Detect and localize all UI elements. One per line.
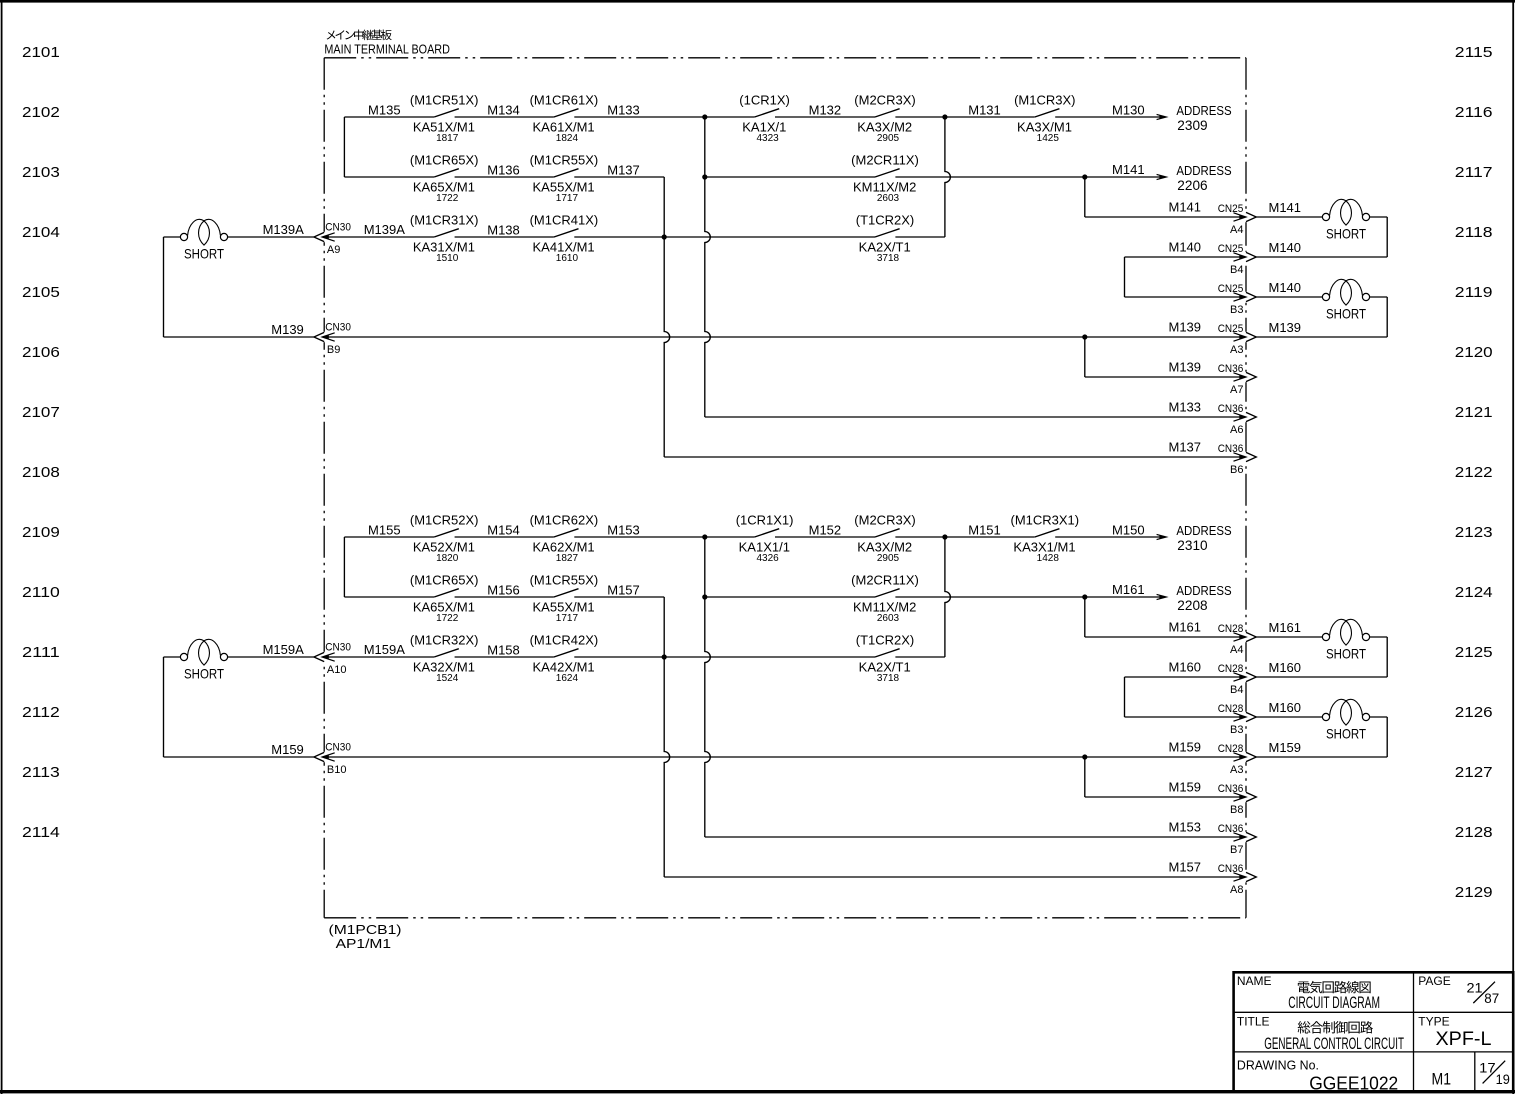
title block [1234,972,1514,1093]
svg-text:M160: M160 [1269,700,1302,715]
svg-text:M135: M135 [368,103,401,118]
svg-text:2114: 2114 [22,824,60,841]
svg-text:M151: M151 [968,523,1001,538]
svg-text:M131: M131 [968,103,1001,118]
wire rung M157 segments (lower row2) [344,596,434,598]
svg-text:(M1CR62X): (M1CR62X) [530,513,599,528]
contact KA51X/M1 (M1CR51X) [410,93,479,144]
connector CN36-A8 [1169,860,1257,896]
label メイン中継基板 [327,30,392,41]
svg-text:M159: M159 [271,742,304,757]
svg-text:1510: 1510 [436,253,459,264]
svg-text:(M1CR61X): (M1CR61X) [530,93,599,108]
svg-text:M159A: M159A [263,642,305,657]
svg-text:19: 19 [1496,1071,1510,1087]
svg-text:2101: 2101 [22,44,60,61]
svg-text:2310: 2310 [1177,537,1207,553]
svg-text:M141: M141 [1169,200,1202,215]
connector CN30-A10 [263,642,406,676]
wire net M139 row [324,336,1246,338]
svg-text:(M1CR41X): (M1CR41X) [530,213,599,228]
contact KA32X/M1 (M1CR32X) [410,633,479,684]
svg-text:M140: M140 [1269,280,1302,295]
short-jumper SHORT (right, M140) [1322,279,1369,321]
svg-text:2119: 2119 [1455,284,1493,301]
svg-text:M132: M132 [809,103,842,118]
svg-text:(M1CR51X): (M1CR51X) [410,93,479,108]
svg-text:M158: M158 [487,643,520,658]
svg-text:(T1CR2X): (T1CR2X) [856,213,915,228]
svg-text:1425: 1425 [1037,133,1060,144]
junction M139 branch to A7 [1082,334,1087,339]
board M1PCB1 AP1/M1 dashed outline (MAIN TERMINAL BOARD) [324,57,1246,59]
junction M157... bus/KM rung [702,594,707,599]
wire KA2X/T1 output up to rung1 [945,537,951,657]
svg-text:(M1CR55X): (M1CR55X) [530,573,599,588]
svg-text:A6: A6 [1230,424,1243,436]
svg-text:(M1CR65X): (M1CR65X) [410,573,479,588]
contact KA65X/M1 (M1CR65X) [410,573,479,624]
junction M141 branch [1082,174,1087,179]
svg-text:2109: 2109 [22,524,60,541]
contact KA62X/M1 (M1CR62X) [530,513,599,564]
svg-text:M138: M138 [487,223,520,238]
svg-text:CN36: CN36 [1218,783,1244,795]
svg-text:M161: M161 [1269,620,1302,635]
svg-text:M155: M155 [368,523,401,538]
wire M160 connector to SHORT and loop to A3 [1256,716,1322,718]
contact KM11X/M2 (M2CR11X) [851,573,919,624]
svg-text:2104: 2104 [22,224,60,241]
svg-text:TITLE: TITLE [1237,1014,1270,1028]
junction M137... bus/KM rung [702,174,707,179]
svg-text:2116: 2116 [1455,104,1493,121]
svg-text:2309: 2309 [1177,117,1207,133]
svg-text:(M1CR52X): (M1CR52X) [410,513,479,528]
svg-text:(M1CR65X): (M1CR65X) [410,153,479,168]
svg-text:(M1CR3X1): (M1CR3X1) [1010,513,1079,528]
junction M153/bus [702,534,707,539]
svg-text:CIRCUIT DIAGRAM: CIRCUIT DIAGRAM [1288,993,1380,1012]
junction M137 branch on rung3 [662,234,667,239]
wire net M133 down from rung1 to pin A6 [705,117,711,417]
wire M159 loop from SHORT to connector CN30-B10 [164,656,181,658]
svg-text:(M1PCB1): (M1PCB1) [329,922,402,937]
svg-text:M130: M130 [1112,103,1145,118]
svg-text:SHORT: SHORT [1326,726,1366,742]
contact KA41X/M1 (M1CR41X) [530,213,599,264]
svg-text:2129: 2129 [1455,884,1493,901]
short-jumper SHORT (right, M161) [1322,619,1369,661]
svg-text:M136: M136 [487,163,520,178]
contact KA55X/M1 (M1CR55X) [530,153,599,204]
connector CN25-A4 [1169,200,1302,236]
svg-text:CN36: CN36 [1218,863,1244,875]
svg-text:CN25: CN25 [1218,203,1244,215]
contact KA1X/1 (1CR1X) [739,93,790,144]
wire M139A from SHORT to connector CN30-A9 [228,236,314,238]
svg-text:1722: 1722 [436,613,459,624]
svg-text:2105: 2105 [22,284,60,301]
contact KA3X/M2 (M2CR3X) [854,93,915,144]
svg-text:CN25: CN25 [1218,283,1244,295]
junction M131/bus [942,114,947,119]
svg-text:CN30: CN30 [325,322,351,334]
contact KA55X/M1 (M1CR55X) [530,573,599,624]
svg-text:SHORT: SHORT [184,246,224,262]
wire rung M155 segments (lower row1) [344,536,434,538]
wire net M137 down from rung2 to pin B6 [664,177,670,457]
svg-text:2905: 2905 [877,553,900,564]
svg-text:2102: 2102 [22,104,60,121]
svg-text:M161: M161 [1169,620,1202,635]
svg-text:M150: M150 [1112,523,1145,538]
svg-text:1610: 1610 [556,253,579,264]
connector CN36-B7 [1169,820,1257,856]
arrow to address 2206 [1157,174,1167,179]
svg-text:4323: 4323 [756,133,779,144]
svg-text:2125: 2125 [1455,644,1493,661]
svg-text:M153: M153 [607,523,640,538]
contact KM11X/M2 (M2CR11X) [851,153,919,204]
svg-text:(M2CR11X): (M2CR11X) [851,153,919,168]
svg-text:NAME: NAME [1237,974,1272,988]
svg-text:A8: A8 [1230,884,1243,896]
wire net M153 down from rung1 to pin B7 [705,537,711,837]
svg-text:2122: 2122 [1455,464,1493,481]
wire rung KM11X/M2 (lower) [705,596,875,598]
svg-text:SHORT: SHORT [1326,226,1366,242]
svg-text:1717: 1717 [556,613,579,624]
svg-text:2126: 2126 [1455,704,1493,721]
junction M151/bus [942,534,947,539]
contact KA52X/M1 (M1CR52X) [410,513,479,564]
page border frame right [1512,0,1514,1094]
svg-text:CN28: CN28 [1218,663,1244,675]
svg-text:1624: 1624 [556,673,579,684]
svg-text:M156: M156 [487,583,520,598]
contact KA31X/M1 (M1CR31X) [410,213,479,264]
svg-text:2110: 2110 [22,584,60,601]
svg-text:M139: M139 [1169,320,1202,335]
svg-text:2113: 2113 [22,764,60,781]
svg-text:2206: 2206 [1177,177,1207,193]
svg-text:2124: 2124 [1455,584,1493,601]
connector CN28-B4 [1169,660,1302,696]
svg-text:(M2CR3X): (M2CR3X) [854,513,915,528]
svg-text:(M1CR31X): (M1CR31X) [410,213,479,228]
svg-text:AP1/M1: AP1/M1 [336,936,392,951]
short-jumper SHORT (right, M141) [1322,199,1369,241]
svg-text:PAGE: PAGE [1418,974,1450,988]
svg-text:M159: M159 [1169,780,1202,795]
svg-text:M1: M1 [1432,1070,1452,1089]
svg-text:2121: 2121 [1455,404,1493,421]
contact KA3X/M2 (M2CR3X) [854,513,915,564]
svg-text:M133: M133 [1169,400,1202,415]
wire net M157 down from rung2 to pin A8 [664,597,670,877]
svg-text:DRAWING No.: DRAWING No. [1237,1057,1319,1072]
svg-text:CN30: CN30 [325,742,351,754]
svg-text:2120: 2120 [1455,344,1493,361]
svg-text:1827: 1827 [556,553,579,564]
svg-text:M160: M160 [1169,660,1202,675]
svg-text:SHORT: SHORT [1326,646,1366,662]
svg-text:M141: M141 [1112,162,1145,177]
svg-text:M157: M157 [607,583,640,598]
contact KA3X/M1 (M1CR3X) [1014,93,1075,144]
svg-text:ADDRESS: ADDRESS [1176,583,1232,598]
svg-text:A7: A7 [1230,384,1243,396]
svg-text:M161: M161 [1112,582,1145,597]
svg-text:(M1CR3X): (M1CR3X) [1014,93,1075,108]
svg-text:CN36: CN36 [1218,363,1244,375]
svg-text:3718: 3718 [877,253,900,264]
svg-text:1820: 1820 [436,553,459,564]
svg-text:ADDRESS: ADDRESS [1176,523,1232,538]
svg-text:2128: 2128 [1455,824,1493,841]
connector CN36-B8 [1169,780,1257,816]
svg-text:B6: B6 [1230,464,1243,476]
wire net M139 branch down to pin A7 [1084,337,1086,377]
contact KA3X1/M1 (M1CR3X1) [1010,513,1079,564]
svg-text:B3: B3 [1230,304,1243,316]
connector CN30-B9 [271,322,351,356]
svg-text:XPF-L: XPF-L [1436,1029,1492,1050]
contact KA42X/M1 (M1CR42X) [530,633,599,684]
svg-text:2107: 2107 [22,404,60,421]
svg-text:2127: 2127 [1455,764,1493,781]
svg-text:M139A: M139A [364,222,406,237]
short-jumper SHORT (lower left, M159A-M159) [180,639,227,681]
svg-text:MAIN TERMINAL BOARD: MAIN TERMINAL BOARD [324,42,450,57]
svg-text:2112: 2112 [22,704,60,721]
svg-text:2905: 2905 [877,133,900,144]
svg-text:M140: M140 [1169,240,1202,255]
svg-text:M141: M141 [1269,200,1302,215]
label 電気回路線図 [1298,981,1371,994]
svg-text:87: 87 [1484,990,1499,1006]
svg-text:2208: 2208 [1177,597,1207,613]
connector CN36-A6 [1169,400,1257,436]
svg-text:M159: M159 [1269,740,1302,755]
svg-text:M139: M139 [1269,320,1302,335]
svg-text:A9: A9 [327,244,340,256]
wire M141 connector to SHORT and loop to B4 [1256,216,1322,218]
svg-text:1717: 1717 [556,193,579,204]
svg-text:M139A: M139A [263,222,305,237]
short-jumper SHORT (right, M160) [1322,699,1369,741]
svg-text:M157: M157 [1169,860,1202,875]
wire net M160 loop pin B4 to pin B3 [1125,676,1247,678]
svg-text:(M1CR32X): (M1CR32X) [410,633,479,648]
svg-text:1722: 1722 [436,193,459,204]
svg-text:B7: B7 [1230,844,1243,856]
short-jumper SHORT (upper left, M139A-M139) [180,219,227,261]
svg-text:M133: M133 [607,103,640,118]
connector CN30-A9 [263,222,406,256]
wire left branch bus (upper) [343,117,345,177]
svg-text:(1CR1X): (1CR1X) [739,93,790,108]
arrow to address 2208 [1157,594,1167,599]
svg-text:A4: A4 [1230,224,1243,236]
svg-text:B8: B8 [1230,804,1243,816]
svg-text:ADDRESS: ADDRESS [1176,103,1232,118]
svg-text:CN25: CN25 [1218,243,1244,255]
svg-text:2108: 2108 [22,464,60,481]
svg-text:(M1CR42X): (M1CR42X) [530,633,599,648]
svg-text:SHORT: SHORT [184,666,224,682]
svg-text:CN28: CN28 [1218,703,1244,715]
svg-text:M154: M154 [487,523,520,538]
contact KA2X/T1 (T1CR2X) [856,213,915,264]
svg-text:(1CR1X1): (1CR1X1) [736,513,794,528]
svg-text:B4: B4 [1230,264,1243,276]
svg-text:1524: 1524 [436,673,459,684]
wire net M161 branch down to pin A4 [1084,597,1086,637]
svg-text:2103: 2103 [22,164,60,181]
svg-text:M134: M134 [487,103,520,118]
connector CN25-B4 [1169,240,1302,276]
wire rung KM11X/M2 (upper) [705,176,875,178]
svg-text:CN28: CN28 [1218,623,1244,635]
contact KA61X/M1 (M1CR61X) [530,93,599,144]
contact KA2X/T1 (T1CR2X) [856,633,915,684]
svg-text:M139: M139 [1169,360,1202,375]
connector CN30-B10 [271,742,351,776]
svg-text:B3: B3 [1230,724,1243,736]
svg-text:(M2CR3X): (M2CR3X) [854,93,915,108]
svg-text:CN36: CN36 [1218,443,1244,455]
connector CN25-A3 [1169,320,1302,356]
svg-text:1428: 1428 [1037,553,1060,564]
svg-text:M159A: M159A [364,642,406,657]
svg-text:(T1CR2X): (T1CR2X) [856,633,915,648]
connector CN36-B6 [1169,440,1257,476]
svg-text:1824: 1824 [556,133,579,144]
junction M161 branch [1082,594,1087,599]
svg-text:GGEE1022: GGEE1022 [1309,1073,1398,1093]
svg-text:(M2CR11X): (M2CR11X) [851,573,919,588]
wire rung M137 segments (upper row2) [344,176,434,178]
svg-text:21: 21 [1467,980,1483,996]
wire M139 loop from SHORT to connector CN30-B9 [164,236,181,238]
svg-text:A3: A3 [1230,764,1243,776]
svg-text:M160: M160 [1269,660,1302,675]
wire KA2X/T1 output up to rung1 [945,117,951,237]
page border frame bottom [0,1090,1515,1093]
svg-text:A3: A3 [1230,344,1243,356]
svg-text:CN36: CN36 [1218,403,1244,415]
svg-text:CN36: CN36 [1218,823,1244,835]
svg-text:M137: M137 [607,163,640,178]
arrow to address 2310 [1157,534,1167,539]
wire M161 connector to SHORT and loop to B4 [1256,636,1322,638]
svg-text:CN30: CN30 [325,222,351,234]
svg-text:TYPE: TYPE [1418,1014,1449,1028]
connector CN28-B3 [1218,700,1301,736]
svg-text:2111: 2111 [22,644,60,661]
svg-text:M152: M152 [809,523,842,538]
svg-text:(M1CR55X): (M1CR55X) [530,153,599,168]
wire net M159 row [324,756,1246,758]
svg-text:M139: M139 [271,322,304,337]
svg-text:A4: A4 [1230,644,1243,656]
svg-text:2123: 2123 [1455,524,1493,541]
junction M159 branch to B8 [1082,754,1087,759]
arrow to address 2309 [1157,114,1167,119]
svg-text:1817: 1817 [436,133,459,144]
wire M140 connector to SHORT and loop to A3 [1256,296,1322,298]
svg-text:CN30: CN30 [325,642,351,654]
svg-text:3718: 3718 [877,673,900,684]
svg-text:B4: B4 [1230,684,1243,696]
svg-text:2115: 2115 [1455,44,1493,61]
svg-text:CN25: CN25 [1218,323,1244,335]
connector CN28-A4 [1169,620,1302,656]
svg-text:CN28: CN28 [1218,743,1244,755]
wire net M159 branch down to pin B8 [1084,757,1086,797]
page border frame left [1,0,3,1094]
connector CN25-B3 [1218,280,1301,316]
svg-text:2603: 2603 [877,613,900,624]
junction M137 branch on rung3 [662,654,667,659]
connector CN36-A7 [1169,360,1257,396]
svg-text:M137: M137 [1169,440,1202,455]
svg-text:2117: 2117 [1455,164,1493,181]
svg-text:2118: 2118 [1455,224,1493,241]
label 総合制御回路 [1298,1021,1373,1033]
page border frame top [0,0,1515,3]
wire net M141 branch down to pin A4 [1084,177,1086,217]
contact KA1X1/1 (1CR1X1) [736,513,794,564]
svg-text:SHORT: SHORT [1326,306,1366,322]
wire left branch bus (lower) [343,537,345,597]
svg-text:M159: M159 [1169,740,1202,755]
wire rung M139A segments (upper row3) [324,236,434,238]
contact KA65X/M1 (M1CR65X) [410,153,479,204]
svg-text:2106: 2106 [22,344,60,361]
svg-text:M140: M140 [1269,240,1302,255]
svg-text:B10: B10 [327,764,347,776]
svg-text:2603: 2603 [877,193,900,204]
svg-text:B9: B9 [327,344,340,356]
svg-text:A10: A10 [327,664,347,676]
svg-text:M153: M153 [1169,820,1202,835]
connector CN28-A3 [1169,740,1302,776]
svg-text:ADDRESS: ADDRESS [1176,163,1232,178]
wire rung M135 segments (upper row1) [344,116,434,118]
wire net M140 loop pin B4 to pin B3 [1125,256,1247,258]
svg-text:GENERAL CONTROL CIRCUIT: GENERAL CONTROL CIRCUIT [1264,1034,1404,1053]
wire rung M159A segments (lower row3) [324,656,434,658]
wire M159A from SHORT to connector CN30-A10 [228,656,314,658]
junction M133/bus [702,114,707,119]
svg-text:4326: 4326 [756,553,779,564]
